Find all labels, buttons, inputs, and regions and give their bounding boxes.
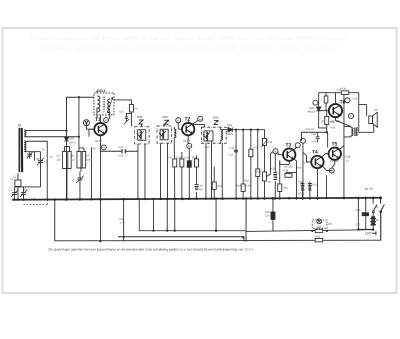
gang labels (8, 157, 40, 191)
svg-text:S40.1: S40.1 (96, 89, 105, 93)
trimmer C3a (27, 152, 32, 159)
svg-text:R2: R2 (56, 154, 60, 157)
svg-text:AC 125: AC 125 (284, 165, 293, 168)
svg-text:10k: 10k (86, 158, 91, 161)
ghost text row 1 (30, 36, 345, 42)
R3/L combo 1 (62, 151, 66, 168)
coil 1 (97, 96, 100, 112)
svg-text:1.5: 1.5 (345, 159, 349, 162)
svg-text:R20: R20 (297, 166, 302, 169)
svg-text:4.7k: 4.7k (245, 184, 251, 187)
svg-text:R31: R31 (315, 236, 320, 239)
corner down to rail B from bus (139, 199, 246, 230)
ferrite rod core (18, 128, 20, 172)
Z adjust symbol 2 (164, 120, 168, 124)
12V label (365, 231, 376, 235)
svg-text:GR2: GR2 (227, 124, 233, 127)
adjust arrow (107, 97, 112, 113)
svg-text:0.04: 0.04 (118, 154, 124, 157)
svg-text:C27: C27 (355, 223, 360, 226)
secondary coil (221, 130, 223, 141)
caps/resistors on them (234, 150, 238, 152)
svg-text:AF 97: AF 97 (183, 140, 191, 143)
svg-text:R11: R11 (192, 156, 197, 159)
electrolytic pair (303, 181, 310, 199)
svg-text:R26: R26 (330, 126, 335, 129)
svg-text:C3: C3 (44, 160, 48, 163)
svg-text:S1: S1 (375, 205, 379, 208)
svg-text:R30: R30 (341, 87, 346, 90)
svg-text:La1: La1 (328, 222, 333, 225)
svg-text:50µ: 50µ (198, 188, 203, 191)
svg-text:R14: R14 (244, 179, 249, 182)
svg-text:R18: R18 (283, 186, 288, 189)
R4/L combo 2 (77, 151, 81, 168)
svg-text:C8: C8 (119, 110, 123, 113)
svg-text:R12: R12 (204, 146, 209, 149)
svg-text:C17: C17 (228, 153, 233, 156)
svg-text:12V: 12V (365, 231, 372, 235)
svg-text:C22: C22 (311, 133, 316, 136)
svg-text:AA119: AA119 (307, 110, 315, 113)
leads (138, 124, 145, 200)
svg-text:130: 130 (316, 226, 321, 229)
svg-text:R9: R9 (168, 156, 172, 159)
svg-text:R28: R28 (345, 155, 350, 158)
svg-text:C26: C26 (355, 209, 360, 212)
svg-text:R16: R16 (256, 170, 261, 173)
svg-text:R15: R15 (267, 141, 272, 144)
svg-text:R10: R10 (176, 156, 181, 159)
trimmer C1 (12, 187, 17, 200)
diode D1 (65, 97, 67, 200)
svg-text:C1: C1 (8, 188, 12, 191)
svg-text:C21: C21 (298, 180, 303, 183)
core line (103, 96, 104, 111)
resistor on rail B (315, 238, 323, 241)
speaker (369, 116, 373, 124)
bottom rail Q (55, 199, 381, 241)
svg-text:C7: C7 (72, 179, 76, 182)
svg-text:AF 97: AF 97 (95, 140, 103, 143)
test circles near T6 (313, 98, 354, 119)
test circle below T5 (329, 168, 334, 173)
small resistor above T6 (324, 93, 328, 111)
connecting wires below box (97, 91, 110, 123)
svg-text:M11′: M11′ (137, 115, 143, 119)
wire (17, 173, 19, 199)
svg-text:270: 270 (303, 161, 308, 164)
measuring point circle left of T1 (83, 120, 94, 129)
dots on detector line (235, 129, 259, 131)
small aux coil right (174, 127, 176, 200)
caption text (48, 247, 254, 251)
page border (3, 28, 397, 293)
labels mixer bias (56, 137, 90, 182)
test circle left of T2 (176, 118, 181, 123)
svg-text:C28: C28 (336, 88, 341, 91)
electrolytic C26 horizontal (358, 228, 373, 230)
electrolytic C19 vertical (274, 153, 276, 199)
svg-text:AC 127: AC 127 (330, 160, 339, 163)
svg-text:ni sb nsqqolan sb msv nslls n: ni sb nsqqolan sb msv nslls n sb ns nsls… (30, 36, 345, 42)
svg-text:22k: 22k (56, 158, 61, 161)
feedback line and C22 (301, 132, 327, 147)
dashed gang line (23, 203, 48, 206)
bottom rail A (246, 230, 373, 232)
tap wires to mixer (25, 97, 94, 130)
base lead (89, 129, 94, 137)
vertical with R at x=123 (123, 199, 125, 241)
svg-text:R21: R21 (312, 183, 317, 186)
svg-text:3d 78: 3d 78 (364, 187, 372, 191)
main ground bus (13, 198, 381, 200)
extra value labels (13, 88, 379, 226)
svg-text:C13: C13 (184, 156, 189, 159)
svg-text:OA79: OA79 (69, 141, 76, 144)
frame (359, 105, 374, 133)
antenna coil winding 2 (24, 141, 26, 152)
svg-text:nsqqol sb nsv ibsm nslls bsm s: nsqqol sb nsv ibsm nslls bsm sb nsv nsls… (42, 46, 337, 52)
antenna coil winding 1 (24, 130, 26, 137)
Z adjust symbol 1 (139, 120, 143, 124)
svg-text:R7: R7 (93, 147, 97, 150)
Z adjust symbol 3 (214, 120, 218, 124)
wire from combo1 to bus (66, 171, 68, 199)
svg-text:De spanningen gemeten met een: De spanningen gemeten met een buisvoltme… (48, 247, 254, 251)
svg-text:log: log (267, 180, 271, 183)
svg-text:5.6k: 5.6k (311, 140, 317, 143)
svg-text:AC 128: AC 128 (331, 120, 340, 123)
top rail output (319, 91, 359, 105)
lamp in dashed box on rail A (312, 220, 327, 228)
switch poles (373, 204, 384, 211)
svg-text:12p: 12p (35, 157, 40, 160)
svg-text:T4: T4 (312, 149, 318, 155)
svg-text:S2: S2 (71, 154, 75, 157)
combo2 feed from top rail (78, 97, 80, 137)
resistor below bus at 272.5 (272, 198, 274, 231)
svg-text:C16: C16 (229, 147, 234, 150)
emitter resistor R17 (279, 160, 281, 199)
svg-text:C29: C29 (352, 97, 357, 100)
svg-text:OA79: OA79 (226, 133, 233, 136)
battery (370, 217, 375, 225)
dot output bias (326, 131, 328, 133)
dots mixer (65, 96, 80, 138)
svg-text:R5: R5 (86, 154, 90, 157)
bottom rail B (P) (118, 237, 244, 241)
trimmer C3 small (34, 152, 43, 167)
svg-text:C2: C2 (24, 188, 28, 191)
svg-text:GR1: GR1 (69, 137, 75, 140)
svg-text:R6: R6 (134, 107, 138, 110)
resistor on rail A (315, 229, 323, 232)
bias wire x=91 (90, 147, 92, 200)
svg-text:C5: C5 (41, 148, 45, 151)
svg-text:R19: R19 (283, 169, 288, 172)
diode AA119 (316, 93, 328, 133)
transformer (351, 128, 353, 136)
svg-text:4.7k: 4.7k (119, 221, 125, 224)
svg-text:T1: T1 (95, 117, 101, 123)
svg-text:C19: C19 (271, 167, 276, 170)
svg-text:T5: T5 (331, 141, 337, 147)
wire vertical right corner (380, 212, 382, 240)
svg-text:T2: T2 (184, 116, 190, 122)
wire supply down right (245, 198, 247, 241)
test circle below T2 (187, 143, 192, 148)
supply vertical from output stage (326, 93, 344, 198)
svg-text:T3: T3 (285, 142, 291, 148)
trimmer osc (77, 171, 82, 199)
svg-text:M: M (18, 123, 21, 127)
ghost text row 2 (42, 46, 337, 52)
svg-text:M13: M13 (213, 115, 219, 119)
svg-text:C11: C11 (118, 146, 123, 149)
emitter lead down (99, 135, 101, 241)
svg-text:R12: R12 (217, 185, 222, 188)
base circle T3 (273, 149, 278, 154)
wire joining (14, 166, 40, 187)
svg-text:B1: B1 (376, 219, 380, 222)
test circle below T1 (100, 145, 106, 150)
svg-text:R13: R13 (253, 146, 258, 149)
svg-text:100µ: 100µ (298, 192, 304, 195)
trimmer C2 (21, 187, 26, 200)
svg-text:AC 128: AC 128 (312, 167, 321, 170)
test circles above T3 (295, 138, 305, 200)
svg-text:LP: LP (374, 108, 378, 112)
svg-text:130: 130 (265, 214, 270, 217)
interstage R/C network T3-T4 (285, 172, 312, 199)
coil 2 (108, 99, 110, 113)
bias resistor R12 (212, 166, 216, 199)
svg-text:R22 24: R22 24 (305, 128, 314, 131)
dots on rails (152, 230, 154, 232)
coil L2 box (15, 180, 21, 187)
svg-text:M11′: M11′ (162, 115, 168, 119)
svg-text:R14: R14 (236, 184, 241, 187)
test circle right of T2 (198, 116, 203, 121)
test circle right of T1 label (104, 118, 109, 123)
detector filter verticals (234, 130, 260, 200)
leads (206, 127, 222, 200)
